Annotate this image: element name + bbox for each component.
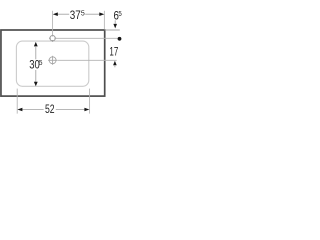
- top edge extension (right): [105, 29, 120, 31]
- dim 30.5 (inside bowl): [34, 42, 38, 47]
- drain leader line: [57, 59, 116, 61]
- svg-text:5: 5: [39, 58, 43, 67]
- faucet hole symbol: [49, 35, 56, 42]
- svg-text:52: 52: [45, 103, 55, 116]
- svg-text:17: 17: [109, 46, 118, 59]
- svg-text:5: 5: [118, 9, 121, 18]
- bowl: [16, 41, 88, 86]
- svg-text:5: 5: [81, 9, 85, 18]
- faucet leader line + dot: [55, 37, 117, 39]
- dim 37.5 line + arrows: [57, 13, 69, 15]
- basin outline: [1, 30, 105, 96]
- drain symbol: [48, 56, 57, 65]
- dim 52 (bottom): [16, 89, 18, 114]
- svg-text:37: 37: [70, 9, 81, 22]
- dim 37.5 extension lines: [52, 11, 54, 36]
